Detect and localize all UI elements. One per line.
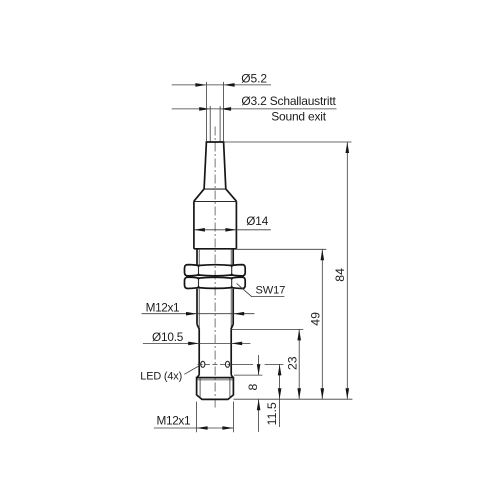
thread M12 upper outer xyxy=(196,249,198,265)
dimension 11.5 xyxy=(265,364,282,427)
svg-text:Ø10.5: Ø10.5 xyxy=(152,330,184,344)
dimension 49 reference line xyxy=(237,248,327,250)
label LED (4x) xyxy=(140,366,199,383)
dimension D5.2 line xyxy=(172,71,271,86)
connector outline xyxy=(197,378,234,400)
cone sides xyxy=(204,142,206,189)
hex nut band 2 xyxy=(185,277,246,288)
svg-text:M12x1: M12x1 xyxy=(157,414,191,428)
dimension 23 reference line xyxy=(231,328,303,330)
svg-text:11.5: 11.5 xyxy=(265,402,279,425)
dimension 84 reference line xyxy=(224,141,352,143)
cone top edge xyxy=(206,141,225,143)
svg-text:Sound exit: Sound exit xyxy=(271,110,327,124)
svg-text:49: 49 xyxy=(308,312,322,326)
dimension D14 xyxy=(194,214,271,231)
connector transition xyxy=(197,375,199,378)
thread root lower xyxy=(198,289,200,329)
dimension D10.5 xyxy=(143,330,251,345)
svg-text:SW17: SW17 xyxy=(256,285,286,297)
dimension 49 xyxy=(308,249,324,399)
dimension 84 xyxy=(333,142,349,399)
dimension M12x1 bottom xyxy=(154,402,234,433)
svg-text:Ø3.2 Schallaustritt: Ø3.2 Schallaustritt xyxy=(241,94,336,108)
dimension 23 xyxy=(286,329,302,399)
LED reference line xyxy=(231,363,254,365)
shoulder base line xyxy=(194,201,237,203)
svg-text:Ø5.2: Ø5.2 xyxy=(241,71,267,85)
svg-text:Ø14: Ø14 xyxy=(246,214,269,228)
thread root upper xyxy=(198,249,200,265)
hex nut band 1 xyxy=(185,265,246,276)
label SW17 xyxy=(237,283,286,296)
svg-text:84: 84 xyxy=(333,268,347,282)
extension lines top xyxy=(206,82,223,141)
shoulder flare xyxy=(194,189,204,201)
LED hole right xyxy=(225,361,229,367)
thread M12 lower outer xyxy=(196,289,198,325)
dimension 8 reference line xyxy=(234,374,262,376)
bottom reference line xyxy=(234,398,353,400)
dimension M12x1 upper xyxy=(142,301,255,316)
svg-text:LED (4x): LED (4x) xyxy=(140,371,182,383)
thread end chamfer xyxy=(197,324,199,329)
centerline xyxy=(214,127,216,410)
svg-text:23: 23 xyxy=(286,356,300,370)
body D10.5 section xyxy=(198,329,200,375)
LED hole left xyxy=(201,361,205,367)
cone base line xyxy=(204,188,226,190)
svg-text:M12x1: M12x1 xyxy=(146,301,180,315)
dimension 8 xyxy=(246,355,261,432)
body D14 cylinder xyxy=(193,201,195,249)
svg-text:8: 8 xyxy=(246,384,260,391)
dimension D3.2 line xyxy=(172,94,337,124)
connector inner lines xyxy=(199,379,201,399)
LED centerline dashed xyxy=(198,363,231,365)
